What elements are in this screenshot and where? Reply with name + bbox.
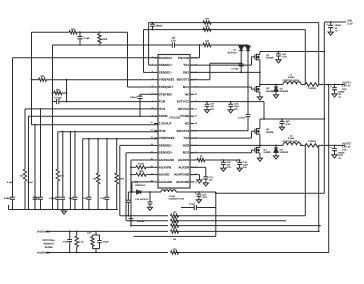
svg-text:1.1k: 1.1k	[79, 240, 84, 243]
svg-text:1µF: 1µF	[286, 120, 291, 123]
svg-text:BG2: BG2	[183, 151, 190, 155]
svg-text:BG1: BG1	[183, 85, 190, 89]
svg-text:Si4838: Si4838	[263, 151, 271, 154]
svg-text:0.68µF: 0.68µF	[4, 197, 12, 200]
svg-text:20k: 20k	[56, 88, 61, 91]
svg-text:3.3VOUT: 3.3VOUT	[159, 122, 172, 126]
svg-text:TG2: TG2	[183, 136, 189, 140]
svg-text:0.4µH: 0.4µH	[288, 137, 295, 140]
svg-text:SENSE1-: SENSE1-	[159, 70, 172, 74]
svg-text:20k: 20k	[40, 75, 45, 78]
svg-text:2.5V: 2.5V	[338, 154, 343, 157]
svg-text:Si4838: Si4838	[266, 131, 274, 134]
svg-text:FCB: FCB	[159, 100, 166, 104]
svg-text:AUXGND: AUXGND	[176, 180, 190, 184]
svg-text:47µF: 47µF	[34, 197, 40, 200]
svg-text:470pF: 470pF	[102, 240, 109, 243]
svg-text:680pF: 680pF	[156, 24, 164, 27]
svg-text:10.0k: 10.0k	[138, 163, 145, 166]
svg-text:AUXVFB: AUXVFB	[159, 165, 172, 169]
svg-text:10k: 10k	[71, 28, 76, 31]
svg-text:OPTIONAL: OPTIONAL	[43, 239, 56, 242]
svg-text:SENSE1+: SENSE1+	[159, 63, 173, 67]
svg-text:100: 100	[205, 18, 210, 21]
svg-text:1µF: 1µF	[209, 178, 213, 181]
svg-text:ITH1: ITH1	[159, 107, 166, 111]
svg-text:XLB2020-471M: XLB2020-471M	[169, 198, 185, 201]
svg-text:0.01µF: 0.01µF	[54, 97, 62, 100]
svg-text:4.7µH: 4.7µH	[169, 195, 176, 198]
svg-text:V0SENSE2: V0SENSE2	[37, 230, 51, 233]
svg-text:SGND: SGND	[159, 114, 169, 118]
svg-text:CDEP104-4R0-H: CDEP104-4R0-H	[283, 79, 300, 82]
svg-text:REMOTE: REMOTE	[44, 243, 55, 246]
svg-text:1µF: 1µF	[227, 163, 231, 166]
svg-text:AUXSGND: AUXSGND	[159, 158, 175, 162]
svg-text:10V: 10V	[210, 108, 214, 111]
svg-text:V0SENSE1: V0SENSE1	[37, 251, 51, 254]
svg-text:10A: 10A	[342, 88, 347, 91]
svg-text:0.01µF: 0.01µF	[130, 96, 138, 99]
svg-text:SW2: SW2	[183, 143, 190, 147]
svg-text:6.3V: 6.3V	[171, 39, 176, 42]
svg-text:4V: 4V	[338, 93, 341, 96]
svg-text:0.1µF: 0.1µF	[84, 37, 91, 40]
svg-text:47µF: 47µF	[100, 197, 106, 200]
svg-text:6.3V: 6.3V	[286, 123, 291, 126]
svg-text:INTVCC: INTVCC	[178, 107, 190, 111]
svg-text:0.47µF: 0.47µF	[231, 68, 239, 71]
svg-text:0.1µF: 0.1µF	[27, 181, 33, 184]
svg-text:ITH2: ITH2	[159, 129, 166, 133]
svg-text:100: 100	[205, 40, 210, 43]
svg-text:AUXSD: AUXSD	[159, 173, 170, 177]
svg-text:BOOST1: BOOST1	[177, 78, 190, 82]
svg-text:PGOOD: PGOOD	[178, 56, 190, 60]
svg-text:6.3V: 6.3V	[227, 166, 232, 169]
svg-text:100µF: 100µF	[335, 24, 342, 27]
svg-text:BAT54A: BAT54A	[228, 52, 237, 55]
svg-text:EXTVCC: EXTVCC	[177, 100, 190, 104]
svg-text:0.1µF: 0.1µF	[189, 202, 196, 205]
svg-text:Si4838: Si4838	[266, 90, 274, 93]
svg-text:0.003Ω: 0.003Ω	[308, 140, 316, 143]
svg-text:0.1µF: 0.1µF	[7, 181, 13, 184]
svg-text:10A: 10A	[342, 149, 347, 152]
svg-text:0.003Ω: 0.003Ω	[308, 87, 316, 90]
svg-text:100k: 100k	[138, 170, 144, 173]
svg-text:SENSE: SENSE	[45, 246, 54, 249]
svg-text:AUXGND: AUXGND	[159, 180, 173, 184]
svg-text:1µF: 1µF	[202, 193, 207, 196]
svg-text:10V: 10V	[243, 166, 247, 169]
svg-text:100k: 100k	[102, 38, 108, 41]
svg-text:220µF: 220µF	[338, 90, 345, 93]
svg-text:CMDSH-3: CMDSH-3	[135, 184, 146, 187]
svg-text:RUN/SS1: RUN/SS1	[159, 56, 173, 60]
svg-text:10µF: 10µF	[234, 105, 240, 108]
svg-text:220µF: 220µF	[338, 151, 345, 154]
svg-text:AUXDR: AUXDR	[178, 165, 190, 169]
svg-text:UPS840: UPS840	[280, 151, 289, 154]
svg-text:6.3V: 6.3V	[282, 56, 287, 59]
svg-text:1µF: 1µF	[282, 53, 287, 56]
svg-text:V0SENSE2: V0SENSE2	[159, 136, 175, 140]
svg-text:V0SENSE1: V0SENSE1	[159, 78, 175, 82]
svg-text:6.3V: 6.3V	[202, 196, 207, 199]
svg-text:AUXPGND: AUXPGND	[174, 173, 190, 177]
svg-text:UPS840: UPS840	[280, 90, 289, 93]
svg-text:SENSE2-: SENSE2-	[159, 143, 172, 147]
svg-text:10µF: 10µF	[243, 163, 249, 166]
svg-text:AUXSW: AUXSW	[178, 158, 189, 162]
svg-text:47µF: 47µF	[63, 240, 69, 243]
svg-text:0.68µF: 0.68µF	[49, 197, 57, 200]
svg-text:SW1: SW1	[183, 70, 190, 74]
svg-text:47µF: 47µF	[82, 197, 88, 200]
svg-text:1M: 1M	[173, 238, 176, 241]
svg-text:0.4µH: 0.4µH	[288, 76, 295, 79]
svg-text:3.3V: 3.3V	[347, 23, 353, 26]
svg-text:BOOST2: BOOST2	[177, 129, 190, 133]
svg-text:TG1: TG1	[183, 63, 189, 67]
svg-text:C16 1µF/6.3V: C16 1µF/6.3V	[135, 198, 149, 201]
svg-text:PGND: PGND	[180, 114, 190, 118]
svg-text:STBYMD: STBYMD	[159, 92, 173, 96]
svg-text:100: 100	[205, 25, 210, 28]
svg-text:47µF: 47µF	[68, 197, 74, 200]
svg-text:1µF: 1µF	[210, 105, 214, 108]
svg-text:FREQSET: FREQSET	[159, 85, 174, 89]
svg-text:SENSE2+: SENSE2+	[159, 151, 173, 155]
svg-text:Si4838: Si4838	[266, 57, 274, 60]
svg-text:CDEP104-4R0-H: CDEP104-4R0-H	[283, 140, 300, 143]
svg-text:LTC1628: LTC1628	[169, 117, 180, 120]
svg-text:10V: 10V	[234, 108, 238, 111]
svg-text:6V: 6V	[335, 27, 338, 30]
svg-text:0.47µF: 0.47µF	[238, 117, 246, 120]
